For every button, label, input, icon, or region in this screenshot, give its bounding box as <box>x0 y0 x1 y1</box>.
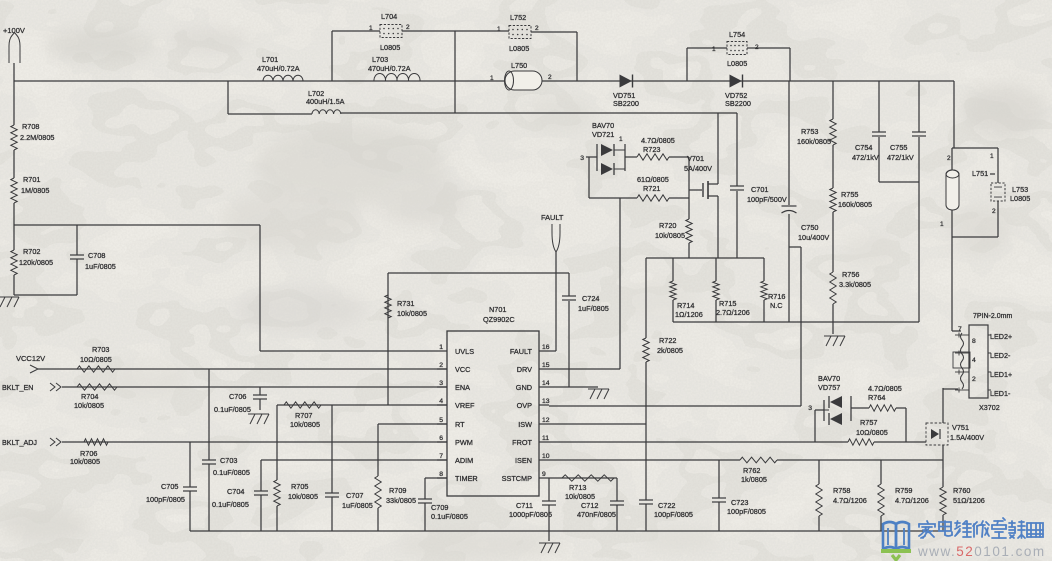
svg-text:R709: R709 <box>389 486 406 495</box>
svg-text:4.7Ω/1206: 4.7Ω/1206 <box>833 496 867 505</box>
svg-text:R705: R705 <box>291 482 308 491</box>
svg-text:L0805: L0805 <box>1010 194 1030 203</box>
svg-text:L751: L751 <box>972 169 988 178</box>
svg-text:R758: R758 <box>833 486 850 495</box>
svg-text:R722: R722 <box>659 336 676 345</box>
svg-text:LED1+: LED1+ <box>990 370 1012 379</box>
svg-text:3: 3 <box>580 155 584 162</box>
svg-text:LED1-: LED1- <box>990 389 1011 398</box>
svg-text:L0805: L0805 <box>727 59 747 68</box>
svg-text:R757: R757 <box>860 418 877 427</box>
svg-text:V751: V751 <box>952 423 969 432</box>
svg-text:C722: C722 <box>658 501 675 510</box>
svg-text:1uF/0805: 1uF/0805 <box>342 501 373 510</box>
svg-text:VCC12V: VCC12V <box>16 354 45 363</box>
svg-text:3.3k/0805: 3.3k/0805 <box>839 280 871 289</box>
svg-text:C706: C706 <box>229 392 246 401</box>
svg-text:R714: R714 <box>677 301 694 310</box>
svg-text:1uF/0805: 1uF/0805 <box>85 262 116 271</box>
svg-text:4.7Ω/0805: 4.7Ω/0805 <box>868 384 902 393</box>
svg-text:1: 1 <box>619 136 623 143</box>
svg-text:2.7Ω/1206: 2.7Ω/1206 <box>716 308 750 317</box>
svg-text:R716: R716 <box>768 292 785 301</box>
svg-text:R721: R721 <box>643 184 660 193</box>
svg-text:4: 4 <box>439 398 443 405</box>
svg-text:R707: R707 <box>295 411 312 420</box>
svg-text:1: 1 <box>712 46 716 53</box>
svg-text:FROT: FROT <box>512 438 532 447</box>
svg-text:C709: C709 <box>431 503 448 512</box>
svg-text:L704: L704 <box>381 12 397 21</box>
svg-text:C708: C708 <box>88 251 105 260</box>
svg-text:R720: R720 <box>659 221 676 230</box>
svg-text:BAV70: BAV70 <box>818 374 840 383</box>
svg-text:10: 10 <box>542 453 550 460</box>
svg-text:1Ω/1206: 1Ω/1206 <box>675 310 703 319</box>
svg-text:C707: C707 <box>346 491 363 500</box>
svg-text:C705: C705 <box>161 482 178 491</box>
svg-text:VD757: VD757 <box>818 383 840 392</box>
svg-text:1k/0805: 1k/0805 <box>741 475 767 484</box>
svg-text:470nF/0805: 470nF/0805 <box>577 510 616 519</box>
svg-text:R701: R701 <box>23 175 40 184</box>
svg-text:1: 1 <box>490 75 494 82</box>
svg-text:10k/0805: 10k/0805 <box>290 420 320 429</box>
svg-text:L701: L701 <box>262 55 278 64</box>
svg-text:R756: R756 <box>842 270 859 279</box>
svg-text:100pF/0805: 100pF/0805 <box>146 495 185 504</box>
svg-text:BAV70: BAV70 <box>592 121 614 130</box>
svg-text:ENA: ENA <box>455 383 470 392</box>
svg-text:www.520101.com: www.520101.com <box>917 544 1046 559</box>
svg-text:4: 4 <box>972 357 976 364</box>
svg-text:8: 8 <box>439 471 443 478</box>
svg-text:C724: C724 <box>582 294 599 303</box>
svg-text:C755: C755 <box>890 143 907 152</box>
svg-text:SB2200: SB2200 <box>725 99 751 108</box>
svg-text:BKLT_EN: BKLT_EN <box>2 383 33 392</box>
svg-text:R731: R731 <box>397 299 414 308</box>
svg-text:OVP: OVP <box>517 401 533 410</box>
svg-text:472/1kV: 472/1kV <box>852 153 879 162</box>
svg-text:V701: V701 <box>687 154 704 163</box>
svg-text:ISEN: ISEN <box>515 456 532 465</box>
svg-text:100pF/500V: 100pF/500V <box>747 195 787 204</box>
svg-text:5: 5 <box>439 417 443 424</box>
svg-text:1: 1 <box>369 25 373 32</box>
svg-text:R759: R759 <box>895 486 912 495</box>
svg-text:C750: C750 <box>801 223 818 232</box>
svg-text:6: 6 <box>439 435 443 442</box>
svg-text:R708: R708 <box>22 122 39 131</box>
svg-text:470uH/0.72A: 470uH/0.72A <box>368 64 411 73</box>
svg-text:160k/0805: 160k/0805 <box>838 200 872 209</box>
svg-text:4.7Ω/1206: 4.7Ω/1206 <box>895 496 929 505</box>
svg-text:R764: R764 <box>868 393 885 402</box>
svg-text:TIMER: TIMER <box>455 474 478 483</box>
svg-text:SB2200: SB2200 <box>613 99 639 108</box>
svg-text:C704: C704 <box>227 487 244 496</box>
svg-text:C711: C711 <box>516 501 533 510</box>
svg-text:1: 1 <box>497 26 501 33</box>
svg-text:L0805: L0805 <box>380 43 400 52</box>
svg-text:15: 15 <box>542 362 550 369</box>
svg-text:UVLS: UVLS <box>455 347 474 356</box>
svg-text:10k/0805: 10k/0805 <box>74 401 104 410</box>
svg-text:RT: RT <box>455 420 465 429</box>
svg-text:16: 16 <box>542 344 550 351</box>
svg-text:1000pF/0805: 1000pF/0805 <box>509 510 552 519</box>
svg-text:N.C: N.C <box>770 301 783 310</box>
svg-text:2.2M/0805: 2.2M/0805 <box>20 133 54 142</box>
svg-text:C701: C701 <box>751 185 768 194</box>
svg-text:PWM: PWM <box>455 438 473 447</box>
svg-text:2: 2 <box>535 25 539 32</box>
svg-text:10u/400V: 10u/400V <box>798 233 829 242</box>
svg-text:R762: R762 <box>743 466 760 475</box>
svg-text:61Ω/0805: 61Ω/0805 <box>637 175 669 184</box>
svg-text:10k/0805: 10k/0805 <box>655 231 685 240</box>
svg-text:2: 2 <box>755 44 759 51</box>
svg-text:FAULT: FAULT <box>510 347 533 356</box>
svg-text:R723: R723 <box>643 145 660 154</box>
svg-text:472/1kV: 472/1kV <box>887 153 914 162</box>
svg-text:10k/0805: 10k/0805 <box>70 457 100 466</box>
svg-text:10k/0805: 10k/0805 <box>397 309 427 318</box>
svg-text:R753: R753 <box>801 127 818 136</box>
svg-text:7: 7 <box>958 326 962 333</box>
svg-text:1uF/0805: 1uF/0805 <box>578 304 609 313</box>
svg-text:8: 8 <box>972 338 976 345</box>
svg-text:9: 9 <box>542 471 546 478</box>
svg-text:100pF/0805: 100pF/0805 <box>654 510 693 519</box>
svg-text:LED2+: LED2+ <box>990 332 1012 341</box>
svg-text:0.1uF/0805: 0.1uF/0805 <box>431 512 468 521</box>
svg-text:FAULT: FAULT <box>541 213 564 222</box>
svg-text:L752: L752 <box>510 13 526 22</box>
svg-text:2: 2 <box>548 74 552 81</box>
svg-text:10k/0805: 10k/0805 <box>565 492 595 501</box>
svg-text:C723: C723 <box>731 498 748 507</box>
svg-text:GND: GND <box>516 383 532 392</box>
svg-text:14: 14 <box>542 380 550 387</box>
svg-text:2: 2 <box>992 208 996 215</box>
svg-text:12: 12 <box>542 417 550 424</box>
svg-text:10Ω/0805: 10Ω/0805 <box>856 428 888 437</box>
svg-text:R760: R760 <box>953 486 970 495</box>
svg-text:N701: N701 <box>489 305 506 314</box>
svg-text:R703: R703 <box>92 345 109 354</box>
svg-text:5A/400V: 5A/400V <box>684 164 712 173</box>
svg-text:R713: R713 <box>569 483 586 492</box>
svg-text:100pF/0805: 100pF/0805 <box>727 507 766 516</box>
svg-text:L703: L703 <box>372 55 388 64</box>
svg-text:2: 2 <box>947 155 951 162</box>
svg-text:0.1uF/0805: 0.1uF/0805 <box>212 500 249 509</box>
svg-text:R715: R715 <box>719 299 736 308</box>
svg-text:2: 2 <box>439 362 443 369</box>
svg-text:11: 11 <box>542 435 549 442</box>
svg-text:R755: R755 <box>841 190 858 199</box>
svg-text:2: 2 <box>406 24 410 31</box>
svg-text:ISW: ISW <box>518 420 532 429</box>
svg-text:R702: R702 <box>23 247 40 256</box>
svg-text:C754: C754 <box>855 143 872 152</box>
svg-text:C712: C712 <box>581 501 598 510</box>
svg-text:33k/0805: 33k/0805 <box>386 496 416 505</box>
svg-text:VREF: VREF <box>455 401 475 410</box>
svg-text:0.1uF/0805: 0.1uF/0805 <box>213 468 250 477</box>
svg-text:L750: L750 <box>511 61 527 70</box>
svg-text:7PIN-2.0mm: 7PIN-2.0mm <box>973 313 1012 320</box>
svg-text:ADIM: ADIM <box>455 456 473 465</box>
svg-text:LED2-: LED2- <box>990 351 1011 360</box>
svg-text:1: 1 <box>439 344 443 351</box>
svg-text:13: 13 <box>542 398 550 405</box>
svg-text:L754: L754 <box>729 30 745 39</box>
svg-text:VCC: VCC <box>455 365 470 374</box>
svg-text:4.7Ω/0805: 4.7Ω/0805 <box>641 136 675 145</box>
svg-text:C703: C703 <box>220 456 237 465</box>
svg-text:R704: R704 <box>81 392 98 401</box>
svg-text:1M/0805: 1M/0805 <box>21 186 49 195</box>
svg-text:SSTCMP: SSTCMP <box>502 474 533 483</box>
svg-text:1.5A/400V: 1.5A/400V <box>950 433 984 442</box>
svg-text:2k/0805: 2k/0805 <box>657 346 683 355</box>
svg-text:L0805: L0805 <box>509 44 529 53</box>
svg-text:QZ9902C: QZ9902C <box>483 315 515 324</box>
svg-text:51Ω/1206: 51Ω/1206 <box>953 496 985 505</box>
svg-text:1: 1 <box>990 153 994 160</box>
svg-text:10Ω/0805: 10Ω/0805 <box>80 355 112 364</box>
svg-text:BKLT_ADJ: BKLT_ADJ <box>2 438 37 447</box>
svg-text:1: 1 <box>940 221 944 228</box>
svg-text:0.1uF/0805: 0.1uF/0805 <box>214 405 251 414</box>
svg-text:L753: L753 <box>1012 185 1028 194</box>
svg-text:3: 3 <box>808 405 812 412</box>
svg-text:DRV: DRV <box>517 365 532 374</box>
svg-text:7: 7 <box>439 453 443 460</box>
svg-text:470uH/0.72A: 470uH/0.72A <box>257 64 300 73</box>
svg-text:3: 3 <box>439 380 443 387</box>
svg-text:120k/0805: 120k/0805 <box>19 258 53 267</box>
svg-text:2: 2 <box>972 376 976 383</box>
svg-text:10k/0805: 10k/0805 <box>288 492 318 501</box>
svg-text:400uH/1.5A: 400uH/1.5A <box>306 97 345 106</box>
svg-text:X3702: X3702 <box>979 403 1000 412</box>
svg-text:VD721: VD721 <box>592 130 614 139</box>
svg-text:160k/0805: 160k/0805 <box>797 137 831 146</box>
